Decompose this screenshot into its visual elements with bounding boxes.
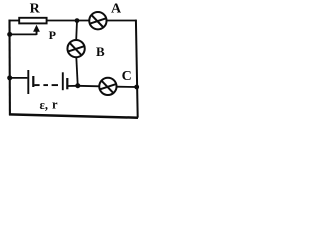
wire battery to node [68, 85, 78, 87]
wire lamp B branch lower [76, 57, 77, 85]
svg-text:B: B [96, 44, 105, 59]
bottom wire [9, 114, 138, 117]
wire lamp B branch upper [75, 21, 78, 40]
svg-text:P: P [49, 28, 56, 42]
dashed wire between cells [34, 84, 58, 86]
wire lamp C to right rail [116, 86, 137, 88]
battery cell 1 long plate [27, 70, 29, 94]
wire lamp A to right rail [107, 20, 137, 22]
lamp C [99, 78, 116, 95]
svg-text:C: C [122, 69, 132, 84]
lamp B [67, 40, 84, 57]
svg-text:A: A [111, 2, 122, 17]
svg-text:ε,: ε, [40, 98, 48, 112]
node left rail battery junction [7, 75, 12, 80]
svg-text:r: r [52, 98, 58, 112]
potentiometer P wiper arrow [33, 25, 40, 35]
battery cell 2 short plate [66, 78, 68, 89]
wire resistor to lamp A [48, 20, 89, 22]
right rail wire [136, 20, 138, 118]
node top junction [75, 18, 80, 23]
node right rail junction [134, 85, 139, 90]
lamp A [89, 12, 106, 29]
resistor R1 box [19, 18, 46, 24]
left rail wire [8, 20, 10, 116]
wire left of resistor [9, 20, 19, 22]
battery cell 1 short plate [32, 76, 34, 87]
wire node to lamp C [78, 85, 100, 88]
battery cell 2 long plate [62, 72, 64, 90]
node battery junction [75, 83, 80, 88]
svg-text:R: R [30, 2, 41, 17]
node slider junction [7, 32, 12, 37]
wire battery left [10, 77, 28, 79]
wire slider arm [10, 33, 37, 35]
